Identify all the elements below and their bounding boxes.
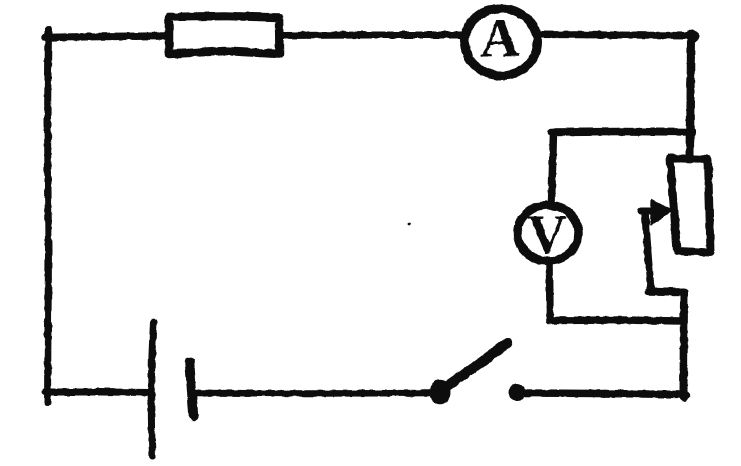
wire battery to bottom-left corner <box>45 389 151 397</box>
wire voltmeter top vertical <box>552 132 554 203</box>
wire left vertical <box>48 30 49 403</box>
wire switch to battery <box>193 390 431 397</box>
rheostat wiper arrow shaft <box>641 208 662 215</box>
wire top rail left segment <box>45 36 168 38</box>
svg-text:A: A <box>481 9 520 69</box>
node junction dot top-right <box>686 30 699 43</box>
battery BT1 positive long plate <box>151 322 153 456</box>
wire resistor to ammeter <box>280 32 462 40</box>
wire wiper down vertical <box>645 213 651 292</box>
wire bottom rail right segment <box>524 393 686 395</box>
wire voltmeter bottom horizontal <box>550 320 683 321</box>
wire voltmeter bottom vertical <box>546 263 554 320</box>
rheostat RP1 body <box>670 158 711 253</box>
voltmeter V1 circle <box>518 205 579 261</box>
wire voltmeter top horizontal <box>552 128 693 136</box>
resistor R1 <box>169 16 280 54</box>
stray ink speck <box>408 223 411 226</box>
wire ammeter to top-right junction <box>538 35 694 36</box>
switch S1 pivot dot <box>430 380 451 405</box>
switch S1 right contact dot <box>509 384 526 401</box>
wire right vertical (junction to rheostat top) <box>690 36 691 156</box>
wire wiper bend horizontal <box>649 288 684 296</box>
ammeter A1 circle <box>465 9 538 76</box>
switch S1 lever <box>445 343 508 388</box>
rheostat wiper arrow head <box>651 200 671 225</box>
wire right vertical lower (to bottom rail) <box>680 292 689 397</box>
svg-text:V: V <box>527 204 567 265</box>
battery BT1 negative short plate <box>190 362 194 416</box>
